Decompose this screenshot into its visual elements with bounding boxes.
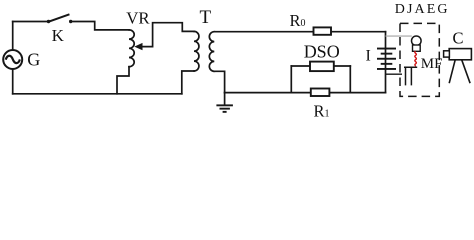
VR wiper arrowhead — [134, 43, 142, 50]
wire DSO branch right junction — [349, 66, 351, 93]
transformer T primary coil — [194, 31, 199, 71]
camera C lens — [444, 51, 450, 57]
resistor R1 box — [311, 89, 330, 97]
source G sine — [6, 56, 20, 63]
piezo stack bars — [377, 48, 396, 70]
DJAEG dashed box — [400, 23, 439, 96]
wire bottom rail left — [13, 93, 182, 95]
switch K contact dots — [47, 20, 73, 23]
svg-text:DJAEG: DJAEG — [395, 2, 450, 17]
camera C tripod legs — [449, 60, 470, 83]
switch K blade — [50, 15, 69, 22]
camera C body — [449, 49, 471, 60]
gray link wire to DJAEG ball — [386, 35, 412, 37]
transformer T secondary coil — [209, 32, 214, 72]
svg-text:MF: MF — [421, 56, 443, 72]
svg-text:DSO: DSO — [304, 42, 340, 62]
DSO box — [310, 62, 334, 72]
ground bars — [216, 104, 233, 112]
wire DSO branch — [291, 65, 350, 67]
table under spring — [404, 67, 417, 85]
svg-text:I: I — [366, 47, 371, 64]
svg-text:VR: VR — [126, 8, 150, 27]
wire switch to corner — [72, 22, 129, 30]
variac VR coil — [129, 30, 134, 67]
wire DSO branch left junction — [290, 66, 292, 93]
DJAEG ball — [412, 36, 422, 46]
svg-text:T: T — [200, 7, 212, 28]
wire stack to table — [386, 73, 403, 75]
wire G bottom vertical — [12, 69, 14, 94]
svg-text:C: C — [453, 28, 464, 47]
svg-text:K: K — [52, 26, 65, 45]
wire secondary top rail through R0 — [214, 31, 385, 33]
wire top rail to switch — [13, 21, 47, 23]
resistor R0 box — [314, 27, 332, 34]
ground stub — [224, 93, 226, 105]
spring MF (red) — [415, 51, 417, 66]
wire VR wiper tail — [142, 23, 194, 47]
svg-text:G: G — [27, 49, 40, 69]
wire right side vertical through stack — [385, 32, 387, 93]
wire bottom rail right — [225, 92, 386, 94]
wire G top vertical — [12, 22, 14, 51]
wire primary bottom to rail — [182, 71, 194, 94]
wire VR bottom jog to rail — [117, 67, 129, 94]
DJAEG magnet square — [413, 45, 421, 51]
source G circle — [3, 50, 22, 69]
wire secondary bottom to ground junction — [214, 71, 224, 92]
